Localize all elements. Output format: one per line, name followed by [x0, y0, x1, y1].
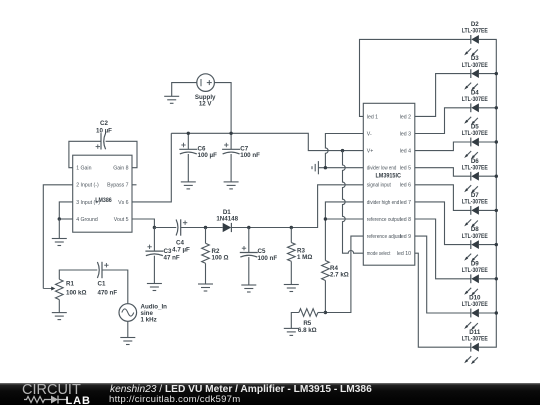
- source V2 Audio_In sine 1kHz: [119, 303, 167, 323]
- svg-text:LTL-307EE: LTL-307EE: [462, 96, 488, 103]
- svg-text:LTL-307EE: LTL-307EE: [462, 199, 488, 206]
- LED D9 LTL-307EE: [462, 260, 488, 296]
- capacitor C6 100uF: [179, 133, 217, 182]
- svg-text:LTL-307EE: LTL-307EE: [462, 164, 488, 171]
- ground (supply): [164, 96, 179, 103]
- node R3 top: [290, 226, 293, 229]
- wire D9 anode to rail: [479, 277, 498, 280]
- svg-text:V-: V-: [367, 131, 372, 137]
- svg-text:LTL-307EE: LTL-307EE: [462, 62, 488, 69]
- ground (C3): [147, 284, 162, 291]
- svg-text:signal input: signal input: [367, 183, 392, 189]
- svg-text:led 5: led 5: [400, 166, 411, 172]
- LED D6 LTL-307EE: [462, 158, 488, 194]
- capacitor C1 470nF: [97, 262, 117, 297]
- svg-text:LTL-307EE: LTL-307EE: [462, 301, 488, 308]
- svg-text:LM3915IC: LM3915IC: [375, 172, 401, 179]
- wire D3 anode to rail: [479, 72, 498, 75]
- wire +12V rail: [171, 133, 363, 150]
- svg-text:100 Ω: 100 Ω: [212, 255, 229, 262]
- ground (C6): [181, 182, 196, 189]
- ground (C5): [241, 285, 256, 292]
- diode D1 1N4148: [216, 209, 238, 232]
- capacitor C3 47nF: [145, 228, 179, 284]
- LED D5 LTL-307EE: [462, 124, 488, 160]
- svg-text:10 µF: 10 µF: [96, 127, 112, 134]
- potentiometer R1 100k: [43, 279, 86, 299]
- wire supply plus down to rail: [214, 83, 231, 134]
- svg-text:Bypass 7: Bypass 7: [107, 183, 128, 189]
- wire led3 to D4: [415, 108, 471, 134]
- CircuitLab logo text CIRCUIT: [22, 382, 81, 398]
- LED D11 LTL-307EE: [462, 329, 488, 365]
- ground (R2): [198, 284, 213, 291]
- LED D8 LTL-307EE: [462, 226, 488, 262]
- ground (C7): [224, 182, 239, 189]
- wire supply minus to ground: [172, 83, 197, 97]
- ground (R1): [52, 313, 67, 320]
- ground (R3): [284, 285, 299, 292]
- node rail-C6: [187, 132, 190, 135]
- capacitor C4 4.7uF: [172, 219, 190, 253]
- svg-text:4.7 µF: 4.7 µF: [172, 246, 190, 253]
- wire LED anode rail: [479, 39, 496, 347]
- IC U1 LM3915IC: [363, 103, 415, 265]
- wire led8 to D9: [415, 219, 471, 279]
- capacitor C5 100nF: [240, 228, 278, 286]
- wire LM386 pin3 to ground node: [59, 202, 72, 219]
- svg-text:led 6: led 6: [400, 183, 411, 189]
- svg-text:100 nF: 100 nF: [258, 255, 278, 262]
- node C5 top: [247, 226, 250, 229]
- wire D1 to signal input: [231, 185, 363, 228]
- CircuitLab footer bar: [0, 383, 540, 405]
- svg-text:V+: V+: [367, 149, 374, 155]
- svg-text:LTL-307EE: LTL-307EE: [462, 28, 488, 35]
- svg-text:6.8 kΩ: 6.8 kΩ: [298, 327, 317, 334]
- voltage source V1 Supply 12V: [195, 74, 216, 108]
- wire led7 to D8: [415, 202, 471, 245]
- svg-text:LTL-307EE: LTL-307EE: [462, 130, 488, 137]
- wire led9 to D10: [415, 236, 471, 313]
- node Vout-C3-C4: [153, 226, 156, 229]
- wire bus to C4: [154, 227, 176, 229]
- svg-text:led 1: led 1: [367, 114, 378, 120]
- svg-text:led 8: led 8: [400, 217, 411, 223]
- wire R4 bottom: [324, 281, 326, 313]
- ground (audio source): [120, 338, 135, 345]
- svg-text:led 10: led 10: [397, 251, 411, 257]
- wire audio source to ground: [127, 321, 129, 337]
- wire led5 to D6: [415, 168, 471, 177]
- resistor R5 6.8k: [298, 309, 318, 334]
- wire LM386 pin2 to R1 wiper: [43, 185, 72, 289]
- svg-text:LTL-307EE: LTL-307EE: [462, 335, 488, 342]
- wire C4 to D1: [181, 227, 223, 229]
- LED D10 LTL-307EE: [462, 295, 488, 331]
- ground (R5): [284, 328, 299, 335]
- wire LM386 pin7 stub: [132, 184, 137, 186]
- svg-text:1 kHz: 1 kHz: [141, 316, 157, 323]
- svg-text:470 nF: 470 nF: [98, 290, 118, 297]
- wire led2 to D3: [415, 74, 471, 117]
- svg-text:divider high end: divider high end: [367, 200, 400, 206]
- resistor R3 1M: [288, 228, 313, 285]
- wire D5 anode to rail: [479, 140, 498, 143]
- svg-text:R1: R1: [66, 280, 74, 287]
- svg-text:100 nF: 100 nF: [240, 152, 260, 159]
- wire V- to ground node (with hop): [325, 134, 363, 168]
- node divider-low ground: [324, 166, 327, 169]
- svg-text:100 kΩ: 100 kΩ: [66, 290, 86, 297]
- wire C1 to audio source: [102, 270, 128, 304]
- svg-text:reference adjust: reference adjust: [367, 234, 402, 240]
- wire D8 anode to rail: [479, 243, 498, 246]
- wire D10 anode to rail: [479, 311, 498, 314]
- wire LM386 pin1 to C2: [69, 141, 101, 167]
- footer url text: [109, 394, 241, 405]
- ground (divider low end, rotated): [312, 161, 318, 174]
- wire R1 bottom to ground: [58, 300, 60, 313]
- CircuitLab logo text LAB: [66, 395, 91, 407]
- wire V+ to mode select (with hops): [343, 151, 364, 254]
- wire led6 to D7: [415, 185, 471, 211]
- wire D6 anode to rail: [479, 175, 498, 178]
- wire R5 right: [318, 312, 326, 314]
- wire rail to LM386 Vs pin 6: [132, 133, 171, 202]
- svg-text:Gain 8: Gain 8: [113, 166, 128, 172]
- op-amp U2 LM386: [73, 155, 132, 232]
- svg-text:led 7: led 7: [400, 200, 411, 206]
- node pin3-pin4 ground: [58, 217, 61, 220]
- node V+ tap: [341, 149, 344, 152]
- svg-text:Vout 5: Vout 5: [114, 217, 129, 223]
- svg-text:1 MΩ: 1 MΩ: [297, 254, 312, 261]
- svg-text:C1: C1: [98, 280, 106, 287]
- resistor R2 100: [202, 228, 229, 285]
- svg-text:led 3: led 3: [400, 131, 411, 137]
- svg-text:LM386: LM386: [95, 197, 112, 204]
- svg-text:led 9: led 9: [400, 234, 411, 240]
- node reference output: [324, 217, 327, 220]
- svg-text:LTL-307EE: LTL-307EE: [462, 233, 488, 240]
- wire R5 left to ground: [291, 313, 299, 329]
- LED D7 LTL-307EE: [462, 192, 488, 228]
- LED D3 LTL-307EE: [462, 55, 488, 90]
- svg-text:2.7 kΩ: 2.7 kΩ: [330, 272, 349, 279]
- LED D4 LTL-307EE: [462, 89, 488, 125]
- svg-text:led 2: led 2: [400, 114, 411, 120]
- svg-text:4 Ground: 4 Ground: [76, 217, 98, 223]
- wire divider low end to ground: [318, 167, 363, 169]
- svg-text:2 Input (-): 2 Input (-): [76, 183, 99, 189]
- wire D7 anode to rail: [479, 209, 498, 212]
- svg-text:100 µF: 100 µF: [198, 152, 218, 159]
- LED D2 LTL-307EE: [462, 21, 488, 57]
- wire led10 to D11: [415, 253, 471, 347]
- node R2 top: [204, 226, 207, 229]
- svg-text:12 V: 12 V: [199, 101, 213, 108]
- footer title text: [110, 384, 372, 395]
- svg-text:47 nF: 47 nF: [164, 255, 180, 262]
- wire R1 top to C1: [59, 270, 97, 279]
- capacitor C2 10uF: [96, 120, 113, 150]
- svg-text:C2: C2: [100, 120, 108, 127]
- svg-text:divider low end: divider low end: [367, 166, 397, 172]
- node R4-R5-refadj: [324, 311, 327, 314]
- CircuitLab logo resistor-diode graphic: [24, 394, 74, 406]
- svg-text:led 4: led 4: [400, 149, 411, 155]
- wire D4 anode to rail: [479, 106, 498, 109]
- capacitor C7 100nF: [222, 133, 260, 182]
- wire led4 to D5: [415, 142, 471, 151]
- svg-text:LTL-307EE: LTL-307EE: [462, 267, 488, 274]
- svg-text:1N4148: 1N4148: [216, 215, 238, 222]
- svg-text:1 Gain: 1 Gain: [76, 166, 91, 172]
- wire LM386 Vout to bus: [132, 219, 154, 228]
- wire LM386 pin4 to ground: [59, 218, 72, 220]
- node rail-C7: [229, 132, 232, 135]
- resistor R4 2.7k: [322, 261, 349, 281]
- wire reference adjust down: [325, 236, 363, 312]
- wire led1 to D2: [360, 39, 471, 116]
- ground (LM386 input): [52, 219, 67, 246]
- svg-text:Vs 6: Vs 6: [118, 200, 128, 206]
- svg-text:reference output: reference output: [367, 217, 402, 223]
- wire C2 to LM386 pin8: [106, 141, 137, 167]
- wire divider high end / reference output to R4: [325, 202, 363, 261]
- svg-text:mode select: mode select: [367, 251, 391, 257]
